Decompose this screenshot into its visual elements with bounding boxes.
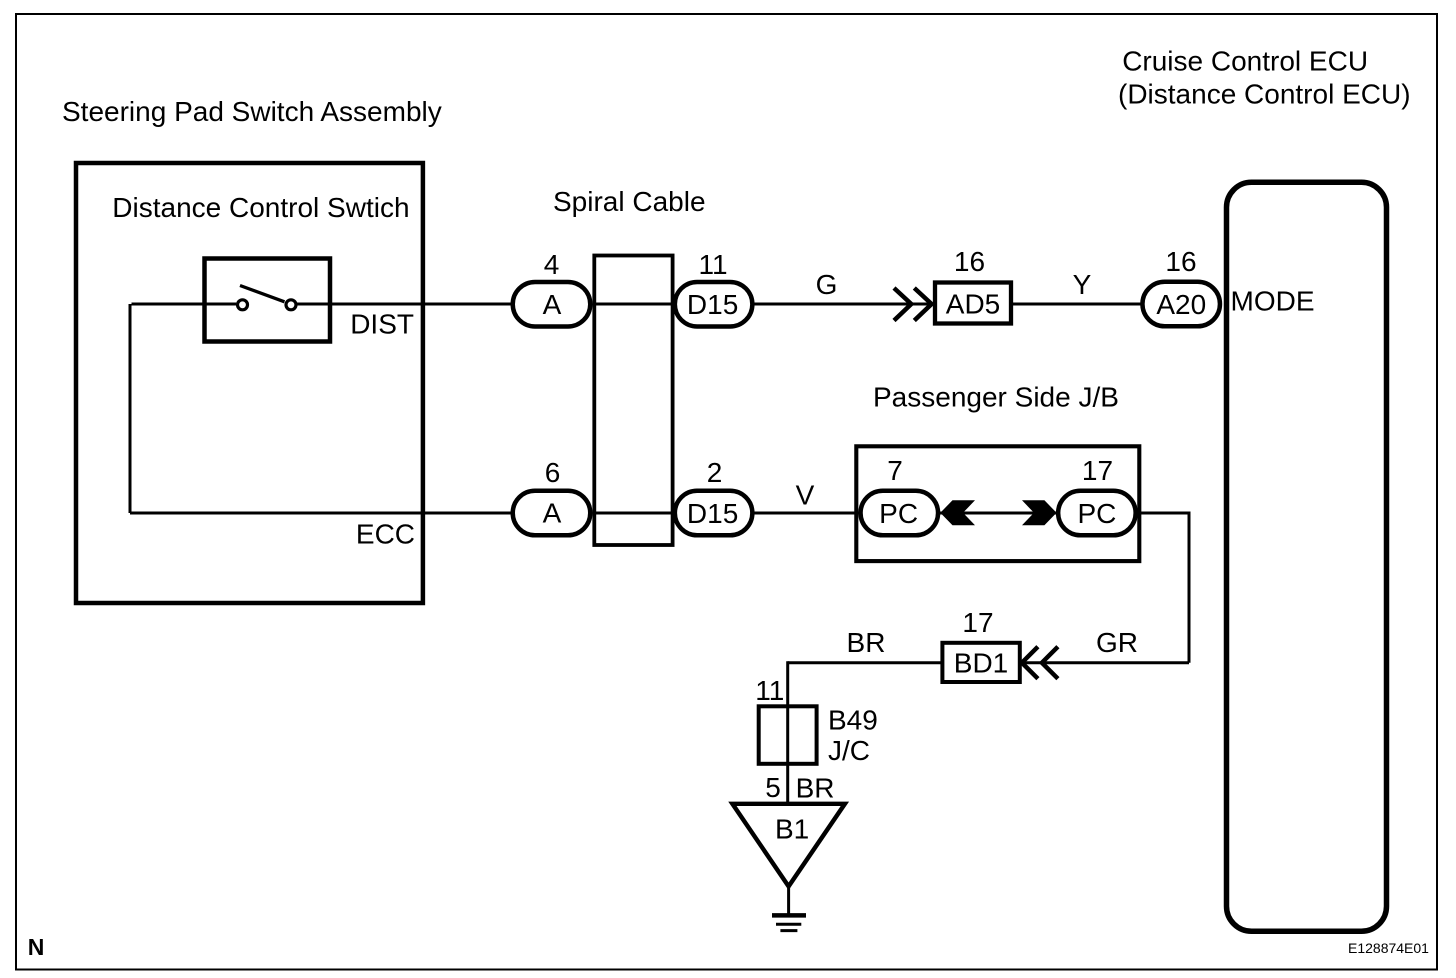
svg-text:Steering Pad Switch Assembly: Steering Pad Switch Assembly <box>62 96 442 127</box>
svg-text:A20: A20 <box>1156 289 1206 320</box>
svg-text:BD1: BD1 <box>954 648 1008 679</box>
svg-text:G: G <box>816 269 838 300</box>
svg-text:(Distance Control ECU): (Distance Control ECU) <box>1118 79 1411 110</box>
svg-text:B1: B1 <box>775 814 809 845</box>
svg-text:AD5: AD5 <box>946 289 1000 320</box>
svg-text:2: 2 <box>707 457 723 488</box>
svg-text:Distance Control Swtich: Distance Control Swtich <box>112 192 409 223</box>
svg-text:E128874E01: E128874E01 <box>1348 940 1429 956</box>
svg-text:GR: GR <box>1096 627 1138 658</box>
svg-text:6: 6 <box>545 457 561 488</box>
svg-text:Cruise Control ECU: Cruise Control ECU <box>1122 46 1368 77</box>
svg-text:D15: D15 <box>687 289 738 320</box>
svg-text:Y: Y <box>1073 269 1092 300</box>
svg-text:A: A <box>543 498 562 529</box>
svg-text:BR: BR <box>847 627 886 658</box>
svg-text:DIST: DIST <box>350 309 414 340</box>
svg-text:A: A <box>543 289 562 320</box>
svg-text:N: N <box>28 934 45 960</box>
svg-text:PC: PC <box>1077 498 1116 529</box>
svg-text:V: V <box>796 480 815 511</box>
svg-text:PC: PC <box>879 498 918 529</box>
svg-text:4: 4 <box>544 249 560 280</box>
svg-text:BR: BR <box>796 773 835 804</box>
svg-text:16: 16 <box>954 246 985 277</box>
svg-text:11: 11 <box>698 249 727 280</box>
svg-text:7: 7 <box>887 455 903 486</box>
svg-text:D15: D15 <box>687 498 738 529</box>
svg-text:MODE: MODE <box>1231 286 1315 317</box>
svg-text:17: 17 <box>1082 455 1113 486</box>
svg-text:ECC: ECC <box>356 519 415 550</box>
svg-text:B49: B49 <box>828 705 878 736</box>
svg-text:5: 5 <box>765 772 781 803</box>
svg-text:Spiral Cable: Spiral Cable <box>553 186 706 217</box>
svg-text:Passenger Side J/B: Passenger Side J/B <box>873 382 1119 413</box>
svg-text:17: 17 <box>962 607 993 638</box>
svg-text:J/C: J/C <box>828 735 870 766</box>
svg-text:16: 16 <box>1165 246 1196 277</box>
svg-text:11: 11 <box>755 675 784 706</box>
